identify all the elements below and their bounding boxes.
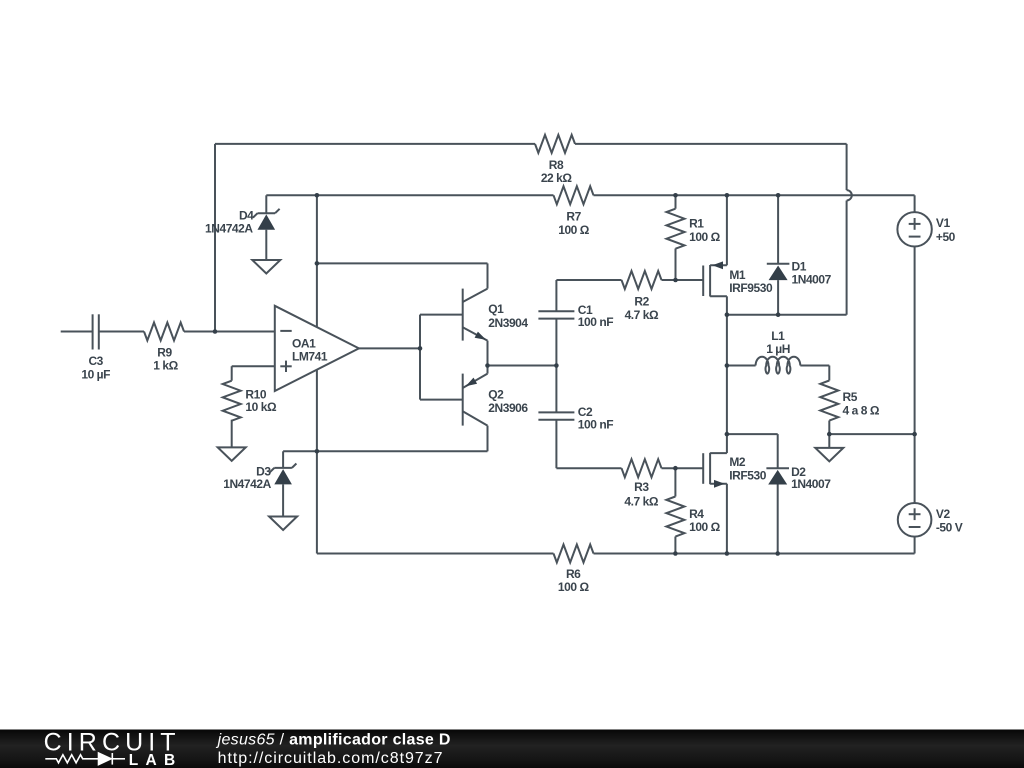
capacitor C1 [538,318,574,320]
svg-text:R4: R4 [689,507,704,521]
svg-text:C3: C3 [88,354,103,368]
svg-text:1N4742A: 1N4742A [205,221,253,235]
wire C2 branch [555,366,557,413]
voltage source V1 [914,195,916,212]
svg-text:1N4007: 1N4007 [791,477,831,491]
svg-text:jesus65 / amplificador clase D: jesus65 / amplificador clase D [216,731,451,748]
wire feedback drop with hop [846,144,848,190]
node emitters [485,363,490,368]
svg-text:R2: R2 [634,295,649,309]
svg-text:2N3906: 2N3906 [488,401,528,415]
svg-text:R3: R3 [634,480,649,494]
capacitor C3 [92,314,94,349]
wire V- down to bottom rail [316,451,318,553]
svg-text:IRF530: IRF530 [729,469,766,483]
svg-text:V1: V1 [936,216,951,230]
svg-text:+50: +50 [936,230,956,244]
svg-text:4.7 kΩ: 4.7 kΩ [625,308,659,322]
svg-text:2N3904: 2N3904 [488,316,528,330]
resistor R7 [554,186,594,204]
transistor M2 IRF530 [702,453,704,484]
node D1 top [776,193,781,198]
wire base bus [419,315,421,400]
svg-text:V2: V2 [936,507,951,521]
svg-text:R1: R1 [689,217,704,231]
node M1 drain [725,312,730,317]
diode D4 zener [258,212,276,214]
resistor R8 [535,135,575,153]
svg-text:M1: M1 [729,268,746,282]
wire node A vertical feedback riser [214,144,216,332]
resistor R4 [674,468,676,496]
ground below R10 [218,447,246,461]
svg-text:Q2: Q2 [488,388,504,402]
wire R8 rail right [575,143,847,145]
ground below D4 [252,260,280,274]
wire V- rail [283,450,487,452]
svg-text:10 kΩ: 10 kΩ [245,400,277,414]
resistor R5 [828,366,830,381]
resistor R3 [622,459,662,477]
node R4 bottom [673,551,678,556]
node M1 source top [725,193,730,198]
resistor R9 [144,323,184,341]
wire D3 stem [282,451,284,468]
svg-text:-50 V: -50 V [936,520,963,534]
node M2 gate [673,466,678,471]
svg-text:http://circuitlab.com/c8t97z7: http://circuitlab.com/c8t97z7 [218,750,444,767]
diode D2 [777,434,779,468]
node input junction [213,329,218,334]
transistor Q2 [462,374,464,426]
node L1 tap [725,363,730,368]
svg-text:4.7 kΩ: 4.7 kΩ [624,495,658,509]
wire input stub [61,331,93,333]
svg-text:D4: D4 [239,208,254,222]
svg-text:R5: R5 [843,390,858,404]
ground below R5 [828,434,830,448]
node M2 source bottom [725,551,730,556]
node M1 gate [673,278,678,283]
logo doodle resistor-diode [45,753,125,765]
node V- branch [315,449,320,454]
svg-text:1N4007: 1N4007 [792,273,832,287]
transistor M1 IRF9530 [702,266,704,297]
wire drain rail [727,314,847,316]
node R5 bottom [827,432,832,437]
svg-text:LM741: LM741 [292,350,328,364]
svg-text:10 µF: 10 µF [81,367,110,381]
wire M2 drain to D2 [727,433,778,435]
capacitor C2 [538,411,574,413]
ground below D3 [269,517,297,531]
wire Q1 collector rail [317,262,488,264]
node V+ branch [315,261,320,266]
svg-text:100 Ω: 100 Ω [558,223,590,237]
wire bottom rail right [594,553,915,555]
op-amp OA1 [275,306,359,391]
svg-text:R9: R9 [157,345,172,359]
svg-text:100 Ω: 100 Ω [558,580,590,594]
wire R7 rail right [594,194,915,196]
svg-text:100 Ω: 100 Ω [689,520,721,534]
wire opamp output [359,347,420,349]
wire D4 stem [265,195,267,213]
node M2 drain [725,432,730,437]
node R7/V+ [315,193,320,198]
wire C3 to R9 [99,331,144,333]
wire L1 branch [726,315,728,434]
svg-text:Q1: Q1 [488,302,504,316]
svg-text:R8: R8 [549,158,564,172]
resistor R10 [223,381,241,421]
wire mid rail [829,433,914,435]
svg-text:D1: D1 [792,259,807,273]
wire R8 rail left [215,143,535,145]
svg-text:IRF9530: IRF9530 [729,281,773,295]
resistor R1 [675,195,677,208]
node R1 top [673,193,678,198]
svg-text:4 a 8 Ω: 4 a 8 Ω [843,403,880,417]
resistor R6 [554,545,594,563]
diode D1 [777,195,779,263]
resistor R2 [622,271,662,289]
diode D3 zener [274,467,292,469]
wire R9 to opamp minus input [184,331,275,333]
node D1 bottom [776,312,781,317]
svg-text:1N4742A: 1N4742A [223,477,271,491]
wire opamp V- pin [316,370,318,452]
wire R7 rail left [266,194,553,196]
svg-text:1 kΩ: 1 kΩ [153,358,178,372]
inductor L1 [756,357,801,374]
svg-text:100 nF: 100 nF [578,418,613,432]
voltage source V2 [914,434,916,503]
wire opamp plus input [232,365,275,367]
node opamp output [418,346,423,351]
svg-text:100 Ω: 100 Ω [689,230,721,244]
wire C1 branch [555,319,557,366]
svg-text:LAB: LAB [129,752,183,768]
wire emitter rail [488,365,557,367]
node C1C2 [554,363,559,368]
svg-text:R7: R7 [566,210,581,224]
svg-text:22 kΩ: 22 kΩ [541,171,573,185]
svg-text:100 nF: 100 nF [578,315,613,329]
node supply mid [912,432,917,437]
transistor Q1 [462,289,464,341]
node D2 bottom [775,551,780,556]
svg-text:M2: M2 [729,455,746,469]
wire opamp V+ branch [316,195,318,263]
svg-text:OA1: OA1 [292,336,316,350]
svg-text:1 µH: 1 µH [766,342,790,356]
